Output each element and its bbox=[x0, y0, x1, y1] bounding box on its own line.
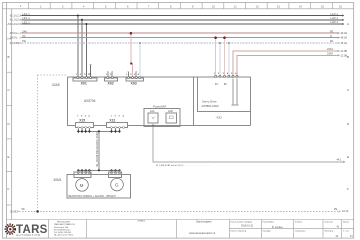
svg-text:5: 5 bbox=[84, 74, 86, 76]
svg-text:PE: PE bbox=[22, 208, 26, 211]
svg-text:4: 4 bbox=[83, 5, 85, 8]
svg-text:9: 9 bbox=[192, 5, 194, 8]
svg-text:Lokalizacja: Lokalizacja bbox=[295, 231, 306, 233]
svg-text:11: 11 bbox=[234, 5, 237, 8]
svg-text:GRM01: GRM01 bbox=[138, 221, 146, 223]
svg-text:L2/1.1: L2/1.1 bbox=[22, 16, 30, 20]
svg-text:Kerkstraat 14b: Kerkstraat 14b bbox=[54, 226, 69, 229]
svg-text:D: D bbox=[347, 122, 350, 126]
svg-text:E1B: E1B bbox=[168, 111, 173, 113]
svg-text:X15: X15 bbox=[79, 118, 85, 122]
svg-text:22.0/PE: 22.0/PE bbox=[10, 41, 20, 45]
svg-text:L2/2.1: L2/2.1 bbox=[331, 16, 339, 20]
svg-text:X02: X02 bbox=[108, 81, 114, 85]
svg-text:TARS AUTOMATION: TARS AUTOMATION bbox=[54, 223, 75, 226]
svg-text:28.0/L+: 28.0/L+ bbox=[10, 31, 19, 35]
svg-text:16: 16 bbox=[339, 5, 342, 8]
svg-text:AUTOMATION: AUTOMATION bbox=[16, 233, 41, 237]
svg-text:-32A5: -32A5 bbox=[51, 83, 60, 87]
svg-text:G: G bbox=[115, 183, 119, 188]
svg-text:61.1/L2: 61.1/L2 bbox=[10, 18, 19, 22]
svg-text:42: 42 bbox=[336, 235, 339, 238]
svg-text:23A5: 23A5 bbox=[327, 53, 333, 56]
svg-text:Samenraapsel: Samenraapsel bbox=[196, 220, 212, 223]
svg-text:Datum voltooiing: Datum voltooiing bbox=[231, 230, 247, 233]
svg-text:C: C bbox=[347, 88, 350, 92]
svg-text:3: 3 bbox=[119, 116, 121, 118]
svg-text:0V: 0V bbox=[22, 34, 25, 38]
svg-text:-X32: -X32 bbox=[216, 116, 223, 120]
svg-text:46.0A: 46.0A bbox=[341, 32, 348, 35]
svg-text:B: B bbox=[347, 55, 349, 59]
svg-text:2018-10-21: 2018-10-21 bbox=[241, 224, 254, 227]
svg-text:Strona: Strona bbox=[343, 220, 350, 223]
svg-text:F: F bbox=[347, 187, 349, 191]
svg-text:2: 2 bbox=[81, 116, 83, 118]
svg-text:Schemat: Schemat bbox=[325, 220, 334, 223]
svg-text:BECKHOFF AM8061 + AG2250 - WPL: BECKHOFF AM8061 + AG2250 - WPLE70 bbox=[69, 195, 117, 198]
svg-text:22.0B: 22.0B bbox=[341, 50, 348, 53]
svg-text:X12: X12 bbox=[109, 118, 115, 122]
svg-text:E: E bbox=[347, 155, 349, 159]
svg-text:6: 6 bbox=[127, 5, 129, 8]
svg-text:X03: X03 bbox=[131, 81, 137, 85]
svg-text:F: F bbox=[8, 187, 10, 191]
svg-text:23A4: 23A4 bbox=[327, 48, 333, 51]
svg-text:28.0/L-: 28.0/L- bbox=[10, 36, 18, 40]
svg-text:B. Gerkes: B. Gerkes bbox=[272, 226, 283, 229]
svg-text:E: E bbox=[8, 155, 10, 159]
svg-text:C: C bbox=[8, 88, 11, 92]
svg-text:-30M1: -30M1 bbox=[53, 178, 62, 182]
svg-text:L3/1.1: L3/1.1 bbox=[22, 20, 30, 24]
svg-text:L3/2.1: L3/2.1 bbox=[331, 20, 339, 24]
svg-text:2: 2 bbox=[40, 5, 42, 8]
svg-text:41: 41 bbox=[350, 235, 353, 238]
svg-text:44.1F: 44.1F bbox=[342, 210, 349, 213]
svg-text:E1A: E1A bbox=[150, 110, 155, 113]
svg-text:14: 14 bbox=[299, 5, 302, 8]
svg-text:15: 15 bbox=[321, 5, 324, 8]
svg-text:5: 5 bbox=[105, 5, 107, 8]
svg-text:24V: 24V bbox=[22, 29, 27, 33]
svg-text:PE: PE bbox=[334, 208, 338, 211]
svg-text:W_1408 ECAT 4x2x0,14 (C) .: W_1408 ECAT 4x2x0,14 (C) . . . . . . . .… bbox=[156, 164, 212, 167]
svg-text:12: 12 bbox=[256, 5, 259, 8]
svg-text:3: 3 bbox=[62, 5, 64, 8]
svg-text:1: 1 bbox=[111, 116, 113, 118]
svg-text:AX5706: AX5706 bbox=[84, 99, 96, 103]
svg-text:61.2/L3: 61.2/L3 bbox=[10, 22, 19, 26]
svg-text:2: 2 bbox=[115, 116, 117, 118]
svg-text:4: 4 bbox=[88, 115, 90, 118]
svg-text:Funkcja: Funkcja bbox=[295, 221, 303, 223]
svg-text:Nastepny: Nastepny bbox=[325, 230, 335, 233]
svg-text:1 z str.: 1 z str. bbox=[343, 230, 350, 233]
svg-text:www.tarsautomation.nl: www.tarsautomation.nl bbox=[189, 231, 216, 235]
svg-text:46.0A: 46.0A bbox=[341, 37, 348, 40]
svg-text:W_14X08 BECKHOFF ZK45: W_14X08 BECKHOFF ZK45 bbox=[95, 132, 99, 167]
svg-text:4: 4 bbox=[123, 115, 125, 118]
svg-text:3: 3 bbox=[85, 116, 87, 118]
svg-text:D: D bbox=[8, 122, 11, 126]
svg-text:30.0E: 30.0E bbox=[10, 210, 17, 213]
svg-text:41: 41 bbox=[337, 225, 340, 228]
svg-text:AX5801-0200: AX5801-0200 bbox=[202, 104, 220, 108]
svg-text:7: 7 bbox=[148, 5, 150, 8]
svg-text:13: 13 bbox=[277, 5, 280, 8]
svg-text:1: 1 bbox=[76, 74, 78, 76]
svg-text:M: M bbox=[80, 183, 84, 188]
svg-text:Projectleider: Projectleider bbox=[263, 220, 275, 223]
svg-text:NL-44 Drunen Nrba: NL-44 Drunen Nrba bbox=[54, 234, 74, 237]
svg-text:1: 1 bbox=[20, 5, 22, 8]
svg-text:N: N bbox=[330, 35, 332, 38]
svg-text:L1/1.1: L1/1.1 bbox=[22, 12, 30, 16]
svg-text:B: B bbox=[8, 55, 10, 59]
svg-text:M1: M1 bbox=[330, 40, 334, 43]
svg-text:L1/2.1: L1/2.1 bbox=[331, 12, 339, 16]
svg-text:Servo Drive: Servo Drive bbox=[202, 100, 217, 104]
svg-text:46.0A: 46.0A bbox=[341, 42, 348, 45]
svg-text:44.1: 44.1 bbox=[337, 159, 342, 162]
svg-text:B2: B2 bbox=[224, 84, 228, 86]
svg-text:1: 1 bbox=[77, 116, 79, 118]
svg-text:10: 10 bbox=[212, 5, 215, 8]
svg-text:B1: B1 bbox=[215, 84, 219, 86]
svg-text:61.1/L1: 61.1/L1 bbox=[10, 13, 19, 17]
svg-text:PowerSAF: PowerSAF bbox=[153, 104, 167, 108]
svg-text:8: 8 bbox=[170, 5, 172, 8]
svg-text:PE: PE bbox=[22, 39, 26, 43]
svg-text:PE: PE bbox=[330, 30, 334, 33]
svg-text:X01: X01 bbox=[81, 82, 87, 86]
svg-text:A: A bbox=[347, 22, 349, 26]
svg-text:Datum laatste wijziging: Datum laatste wijziging bbox=[231, 220, 253, 223]
svg-text:Opvolger: Opvolger bbox=[263, 230, 272, 233]
svg-text:1: 1 bbox=[106, 74, 108, 76]
svg-text:5154 BN Elshout: 5154 BN Elshout bbox=[54, 228, 71, 231]
